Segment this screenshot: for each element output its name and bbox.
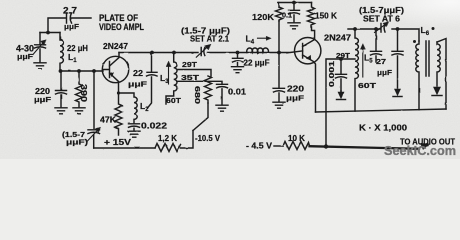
capacitor 0.01 (217, 84, 228, 104)
svg-text:-10.5 V: -10.5 V (195, 134, 221, 143)
node dot audio junction (324, 144, 328, 148)
inductor L6 primary (416, 41, 419, 110)
node dot L1/rail (59, 69, 63, 73)
svg-text:29T: 29T (182, 60, 197, 69)
svg-text:10 K: 10 K (288, 134, 305, 143)
svg-text:35T: 35T (181, 73, 200, 82)
capacitor 220 uuF input (56, 71, 67, 107)
node dot top bias (292, 1, 296, 5)
L3 slug arrow (168, 65, 170, 85)
capacitor 1.5-7 uuF trimmer left (88, 130, 100, 148)
wire 29T tap line Q2 (326, 59, 355, 146)
svg-text:μμF: μμF (64, 22, 79, 31)
capacitor C 2.7 uuF plates (67, 13, 72, 23)
L6 core (426, 41, 429, 76)
transistor Q1 collector (110, 53, 120, 67)
capacitor 0.1 (289, 3, 300, 23)
node dot 22uuF tap (150, 51, 154, 55)
resistor 390 (76, 71, 83, 107)
svg-text:2N247: 2N247 (103, 42, 129, 51)
wire tank top rail (348, 29, 419, 41)
transistor Q2 2N247 circle (295, 38, 321, 64)
ground under 0.1 (288, 23, 300, 29)
capacitor 27 uuF left (371, 29, 382, 62)
node dot L3 tap (172, 51, 176, 55)
svg-text:60T: 60T (166, 96, 181, 105)
ground under 22uuF shunt (232, 67, 244, 73)
wire junction horizontal at input (40, 32, 60, 34)
trimmer SET AT 2.1 arrow (196, 47, 207, 57)
capacitor 0.022 (129, 124, 140, 131)
capacitor 1.5-7 left arrow (87, 130, 98, 141)
capacitor trimmer SET AT 6 (381, 24, 385, 33)
node dot 22uuF shunt (236, 51, 240, 55)
capacitor 22 uuF shunt (233, 53, 244, 67)
svg-text:0.01: 0.01 (228, 87, 246, 97)
svg-text:220: 220 (287, 84, 304, 94)
capacitor 0.001 (336, 59, 347, 91)
inductor L3 tapped coil (166, 53, 177, 105)
node dot L5 top (353, 27, 357, 31)
ground under 220 uuF Q2 (273, 102, 285, 108)
node dot L6 polarity right (432, 27, 435, 30)
wire collector rail Q1 (119, 52, 279, 54)
transistor Q1 base bar (103, 62, 110, 78)
transistor Q2 base bar (302, 44, 304, 59)
capacitor 4-30 uuF trimmer (35, 33, 46, 63)
wire trimmer 1.5-7 drop (93, 71, 95, 129)
resistor 1.2K (155, 144, 181, 152)
ground under 4-30 trimmer (34, 63, 46, 69)
wire 680 bottom diagonal (193, 103, 208, 131)
ground under 220 uuF input (55, 108, 67, 114)
svg-text:390: 390 (79, 84, 88, 103)
node dot 0.001 tap (339, 57, 343, 61)
ground under 0.022 (128, 131, 140, 137)
svg-text:47K: 47K (100, 116, 116, 125)
wire rail to Q2 base (279, 51, 303, 53)
svg-text:0.001: 0.001 (327, 61, 336, 87)
transistor Q2 collector (303, 55, 316, 112)
wire -4.5V to 10K (274, 145, 283, 147)
wire 29T tap (177, 70, 211, 77)
svg-text:2.7: 2.7 (63, 6, 77, 16)
svg-text:0.1: 0.1 (282, 11, 292, 20)
wire 120K drop (278, 21, 280, 53)
svg-text:μμF: μμF (17, 52, 33, 61)
resistor 680 (205, 76, 212, 103)
ground arrow under L6 secondary (434, 87, 441, 95)
svg-text:μμF: μμF (286, 94, 305, 103)
svg-text:VIDEO AMPL: VIDEO AMPL (99, 22, 144, 33)
svg-text:0.022: 0.022 (141, 122, 168, 131)
svg-text:680: 680 (193, 86, 202, 104)
capacitor 27 uuF right (392, 29, 403, 88)
trimmer SET AT 6 arrow (375, 24, 386, 32)
resistor 10K (283, 142, 310, 150)
wire base rail Q1 (60, 70, 103, 72)
svg-text:2N247: 2N247 (324, 34, 352, 43)
resistor 120K (276, 3, 283, 22)
wire input top-left (48, 18, 91, 33)
svg-text:μμF: μμF (34, 95, 52, 104)
svg-text:SET AT 2.1: SET AT 2.1 (190, 35, 230, 44)
capacitor 22 uuF interstage (147, 53, 158, 109)
capacitor trimmer SET AT 2.1 (201, 48, 205, 56)
capacitor 220 uuF Q2 (274, 53, 285, 102)
wire 35T tap (177, 81, 222, 83)
svg-text:1,2 K: 1,2 K (158, 134, 177, 143)
node dot trimmer left (374, 27, 378, 31)
inductor L5 tapped (355, 29, 358, 111)
svg-text:μμF: μμF (128, 80, 148, 89)
svg-text:μμF): μμF) (66, 138, 89, 147)
svg-text:29T: 29T (336, 53, 351, 60)
svg-text:μμF: μμF (377, 68, 392, 77)
inductor L2 (119, 93, 138, 123)
svg-text:22 μμF: 22 μμF (244, 59, 270, 68)
svg-text:120K: 120K (252, 12, 275, 22)
inductor L6 secondary (437, 42, 440, 86)
transistor Q2 emitter w/ arrow (303, 40, 315, 47)
L5 slug arrow (362, 47, 364, 77)
resistor 150K (308, 3, 315, 28)
wire tank box bottom (316, 109, 447, 112)
ground under 0.01 (216, 105, 228, 111)
wire tank box right / L6 secondary top (437, 39, 446, 110)
node dot L6 polarity left (413, 40, 416, 43)
node dot 390/rail (77, 69, 81, 73)
svg-text:- 4.5 V: - 4.5 V (246, 142, 273, 151)
node dot Q1 emitter junction (117, 91, 120, 94)
inductor L4 (247, 48, 269, 52)
svg-text:K · X 1,000: K · X 1,000 (359, 124, 408, 133)
ground arrow under 27 uuF (395, 89, 401, 96)
svg-text:60T: 60T (358, 81, 377, 90)
svg-text:150 K: 150 K (315, 11, 338, 21)
svg-text:SeekIC.com: SeekIC.com (384, 143, 456, 158)
wire top bias rail (278, 2, 312, 4)
node input junction dot (46, 31, 50, 35)
capacitor 4-30 trimmer arrow (33, 42, 44, 55)
audio out arrowhead (421, 143, 430, 149)
node dot trimmer-drop/rail (92, 69, 96, 73)
transistor Q1 2N247 circle (102, 56, 128, 82)
ground arrow under 0.001 (340, 91, 342, 93)
inductor L1 22uH (60, 33, 63, 72)
svg-text:+ 15V: + 15V (104, 137, 131, 147)
node dot trimmer right (396, 27, 400, 31)
transistor Q1 emitter w/ arrow (110, 73, 119, 93)
wire audio out line (310, 146, 420, 149)
svg-text:22: 22 (133, 68, 143, 78)
svg-text:27: 27 (376, 57, 386, 66)
resistor 47K (115, 93, 122, 135)
wire 150K to Q2 emitter (312, 27, 315, 39)
ground under 390 (73, 108, 85, 114)
wire +15V bottom rail (94, 131, 193, 149)
svg-text:SET AT 6: SET AT 6 (363, 14, 400, 24)
node dot L4 right (277, 51, 281, 55)
L4 arrow (258, 37, 268, 39)
